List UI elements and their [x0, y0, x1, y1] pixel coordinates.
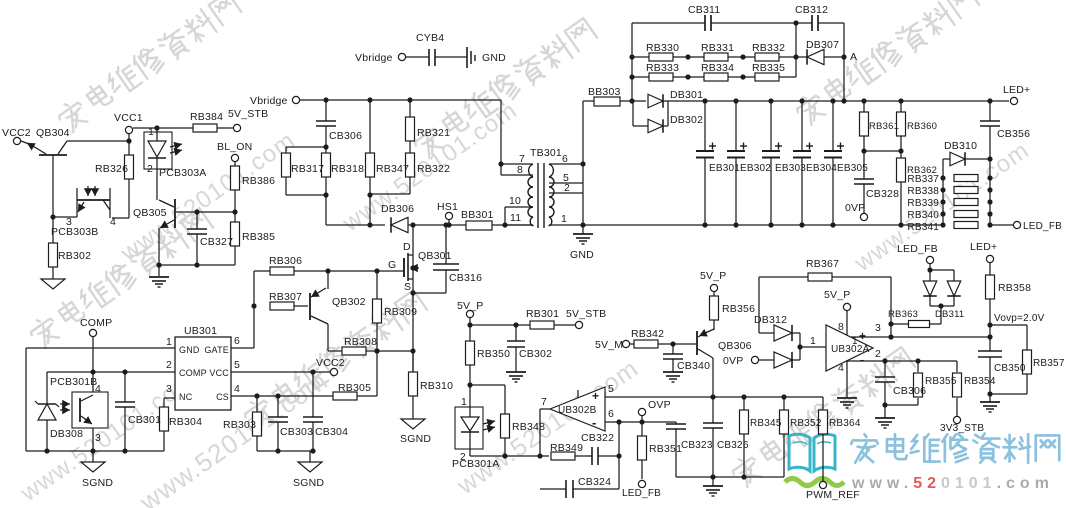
- svg-text:RB317: RB317: [291, 163, 324, 175]
- svg-text:1: 1: [148, 126, 154, 138]
- svg-text:RB331: RB331: [701, 42, 734, 54]
- svg-text:RB347: RB347: [376, 163, 409, 175]
- svg-text:2: 2: [875, 348, 881, 360]
- svg-text:RB350: RB350: [477, 348, 510, 360]
- svg-text:6: 6: [608, 408, 614, 420]
- svg-text:Vovp=2.0V: Vovp=2.0V: [994, 313, 1045, 324]
- svg-text:EB305: EB305: [837, 163, 868, 174]
- svg-text:QB304: QB304: [36, 127, 70, 139]
- svg-text:VCC: VCC: [209, 368, 229, 378]
- svg-text:6: 6: [562, 153, 568, 165]
- svg-text:DB308: DB308: [50, 428, 83, 440]
- svg-text:HS1: HS1: [437, 201, 458, 213]
- svg-text:RB341: RB341: [907, 222, 939, 233]
- svg-text:UB302B: UB302B: [558, 405, 597, 416]
- svg-text:DB307: DB307: [806, 39, 839, 51]
- svg-text:+: +: [592, 389, 599, 403]
- svg-text:www.520101.com: www.520101.com: [851, 475, 1054, 492]
- svg-text:RB322: RB322: [417, 163, 450, 175]
- svg-text:-: -: [860, 352, 865, 367]
- svg-text:CB303: CB303: [280, 426, 313, 438]
- svg-text:CB304: CB304: [315, 426, 348, 438]
- svg-text:4: 4: [110, 216, 116, 228]
- svg-text:VCC1: VCC1: [114, 112, 143, 124]
- svg-text:CB350: CB350: [994, 363, 1026, 374]
- svg-text:GND: GND: [179, 345, 200, 355]
- svg-text:DB306: DB306: [381, 203, 414, 215]
- svg-text:RB354: RB354: [964, 376, 996, 387]
- svg-text:CB312: CB312: [795, 4, 828, 16]
- svg-text:EB304: EB304: [806, 163, 837, 174]
- svg-text:DB310: DB310: [944, 140, 977, 152]
- svg-text:RB334: RB334: [701, 62, 734, 74]
- svg-text:8: 8: [517, 164, 523, 176]
- svg-text:5V_P: 5V_P: [700, 270, 727, 282]
- svg-text:PWM_REF: PWM_REF: [806, 489, 860, 501]
- svg-text:LED+: LED+: [970, 241, 997, 253]
- svg-text:RB349: RB349: [550, 442, 583, 454]
- svg-text:RB335: RB335: [752, 62, 785, 74]
- svg-text:RB385: RB385: [242, 231, 275, 243]
- svg-text:www.520101.com: www.520101.com: [849, 137, 1034, 278]
- svg-text:7: 7: [541, 396, 547, 408]
- svg-text:5V_STB: 5V_STB: [566, 308, 606, 320]
- svg-text:RB305: RB305: [338, 382, 371, 394]
- svg-text:VCC2: VCC2: [316, 357, 345, 369]
- svg-text:2: 2: [166, 359, 172, 371]
- svg-text:3: 3: [875, 322, 881, 334]
- svg-text:4: 4: [234, 383, 240, 395]
- svg-text:BB301: BB301: [461, 209, 494, 221]
- svg-text:RB338: RB338: [907, 186, 939, 197]
- svg-text:RB361: RB361: [869, 121, 899, 132]
- svg-text:CB322: CB322: [581, 432, 614, 444]
- svg-text:+: +: [859, 329, 866, 343]
- svg-text:RB308: RB308: [344, 336, 377, 348]
- svg-text:CB326: CB326: [717, 440, 749, 451]
- svg-text:RB309: RB309: [384, 306, 417, 318]
- svg-text:DB312: DB312: [754, 314, 787, 326]
- svg-text:CS: CS: [216, 392, 229, 402]
- svg-text:RB364: RB364: [829, 418, 861, 429]
- svg-text:RB326: RB326: [95, 163, 128, 175]
- svg-text:RB332: RB332: [752, 42, 785, 54]
- svg-text:BL_ON: BL_ON: [217, 141, 252, 153]
- svg-text:EB303: EB303: [775, 163, 806, 174]
- svg-text:D: D: [403, 241, 411, 253]
- svg-text:GND: GND: [482, 52, 506, 64]
- svg-text:0VP: 0VP: [845, 202, 865, 214]
- svg-text:6: 6: [234, 335, 240, 347]
- svg-text:RB367: RB367: [806, 258, 839, 270]
- svg-text:1: 1: [561, 213, 567, 225]
- svg-text:RB356: RB356: [722, 303, 755, 315]
- svg-text:CYB4: CYB4: [416, 32, 444, 44]
- svg-text:QB305: QB305: [133, 207, 167, 219]
- svg-text:LED_FB: LED_FB: [622, 488, 661, 499]
- svg-text:RB304: RB304: [169, 416, 202, 428]
- svg-text:CB301: CB301: [128, 414, 161, 426]
- svg-text:RB333: RB333: [646, 62, 679, 74]
- svg-text:A: A: [850, 51, 857, 63]
- svg-text:DB301: DB301: [670, 89, 703, 101]
- svg-text:CB356: CB356: [997, 128, 1030, 140]
- svg-text:BB303: BB303: [588, 86, 621, 98]
- svg-text:RB301: RB301: [526, 308, 559, 320]
- svg-text:OVP: OVP: [648, 399, 671, 411]
- svg-text:1: 1: [810, 335, 816, 347]
- svg-text:RB348: RB348: [512, 421, 545, 433]
- svg-text:G: G: [388, 259, 396, 271]
- svg-text:COMP: COMP: [80, 317, 112, 329]
- svg-text:SGND: SGND: [293, 477, 324, 489]
- svg-text:EB302: EB302: [740, 163, 771, 174]
- svg-text:4: 4: [95, 383, 101, 395]
- svg-text:PCB303B: PCB303B: [51, 226, 99, 238]
- svg-text:GATE: GATE: [204, 345, 229, 355]
- svg-text:2: 2: [147, 163, 153, 175]
- svg-text:CB316: CB316: [449, 272, 482, 284]
- svg-text:SGND: SGND: [400, 433, 431, 445]
- svg-text:LED_FB: LED_FB: [897, 243, 938, 255]
- svg-text:RB345: RB345: [750, 418, 782, 429]
- svg-text:QB306: QB306: [718, 340, 752, 352]
- svg-text:CB302: CB302: [519, 348, 552, 360]
- svg-text:CB306: CB306: [893, 385, 926, 397]
- svg-text:4: 4: [838, 362, 844, 374]
- svg-text:RB307: RB307: [269, 291, 302, 303]
- svg-text:RB303: RB303: [223, 419, 256, 431]
- svg-text:CB328: CB328: [866, 188, 899, 200]
- svg-text:CB340: CB340: [677, 360, 710, 372]
- svg-text:RB342: RB342: [631, 328, 664, 340]
- svg-text:CB327: CB327: [200, 236, 233, 248]
- svg-text:RB310: RB310: [420, 380, 453, 392]
- svg-text:PCB301B: PCB301B: [50, 376, 98, 388]
- svg-text:CB324: CB324: [578, 476, 611, 488]
- svg-text:10: 10: [509, 195, 521, 207]
- svg-text:1: 1: [461, 396, 467, 408]
- svg-text:5: 5: [608, 383, 614, 395]
- svg-text:LED+: LED+: [1003, 84, 1030, 96]
- svg-text:LED_FB: LED_FB: [1023, 221, 1062, 232]
- svg-text:5V_M: 5V_M: [595, 339, 623, 351]
- svg-text:RB321: RB321: [417, 127, 450, 139]
- svg-text:NC: NC: [179, 392, 193, 402]
- svg-text:11: 11: [510, 212, 521, 224]
- svg-text:3V3_STB: 3V3_STB: [940, 423, 984, 434]
- svg-text:RB351: RB351: [649, 443, 682, 455]
- svg-text:3: 3: [95, 432, 101, 444]
- svg-text:QB301: QB301: [418, 250, 452, 262]
- svg-text:RB302: RB302: [58, 250, 91, 262]
- svg-text:RB337: RB337: [907, 174, 939, 185]
- svg-text:RB363: RB363: [888, 309, 918, 320]
- svg-text:RB357: RB357: [1033, 358, 1065, 369]
- svg-text:5V_STB: 5V_STB: [228, 108, 268, 120]
- svg-text:5V_P: 5V_P: [457, 300, 484, 312]
- svg-text:VCC2: VCC2: [2, 127, 31, 139]
- svg-text:RB352: RB352: [790, 418, 822, 429]
- svg-text:PCB301A: PCB301A: [452, 458, 500, 470]
- svg-text:QB302: QB302: [332, 296, 366, 308]
- svg-text:RB318: RB318: [331, 163, 364, 175]
- svg-text:RB358: RB358: [998, 282, 1031, 294]
- svg-text:EB301: EB301: [709, 163, 740, 174]
- svg-text:0VP: 0VP: [723, 355, 743, 367]
- svg-text:5: 5: [234, 359, 240, 371]
- svg-text:CB306: CB306: [329, 130, 362, 142]
- svg-text:RB384: RB384: [190, 111, 223, 123]
- svg-text:PCB303A: PCB303A: [159, 167, 207, 179]
- svg-text:2: 2: [564, 182, 570, 194]
- svg-text:SGND: SGND: [82, 477, 113, 489]
- svg-text:5V_P: 5V_P: [824, 289, 851, 301]
- svg-text:RB355: RB355: [925, 376, 957, 387]
- svg-text:S: S: [404, 281, 411, 293]
- svg-text:-: -: [592, 415, 597, 430]
- svg-text:RB306: RB306: [269, 255, 302, 267]
- svg-text:CB311: CB311: [688, 4, 720, 16]
- svg-text:RB340: RB340: [907, 210, 939, 221]
- svg-text:TB301: TB301: [530, 147, 562, 159]
- svg-text:RB330: RB330: [646, 42, 679, 54]
- svg-text:RB339: RB339: [907, 198, 939, 209]
- svg-text:CB323: CB323: [681, 440, 713, 451]
- svg-text:1: 1: [166, 336, 172, 348]
- svg-text:RB386: RB386: [242, 175, 275, 187]
- svg-text:RB360: RB360: [907, 121, 937, 132]
- svg-text:1: 1: [852, 336, 858, 347]
- svg-text:Vbridge: Vbridge: [250, 95, 288, 107]
- svg-text:UB301: UB301: [184, 325, 217, 337]
- svg-text:8: 8: [838, 321, 844, 333]
- svg-text:DB311: DB311: [935, 309, 964, 320]
- svg-text:Vbridge: Vbridge: [355, 52, 393, 64]
- svg-text:COMP: COMP: [179, 368, 207, 378]
- svg-text:3: 3: [166, 383, 172, 395]
- svg-text:DB302: DB302: [670, 114, 703, 126]
- svg-text:GND: GND: [570, 249, 594, 261]
